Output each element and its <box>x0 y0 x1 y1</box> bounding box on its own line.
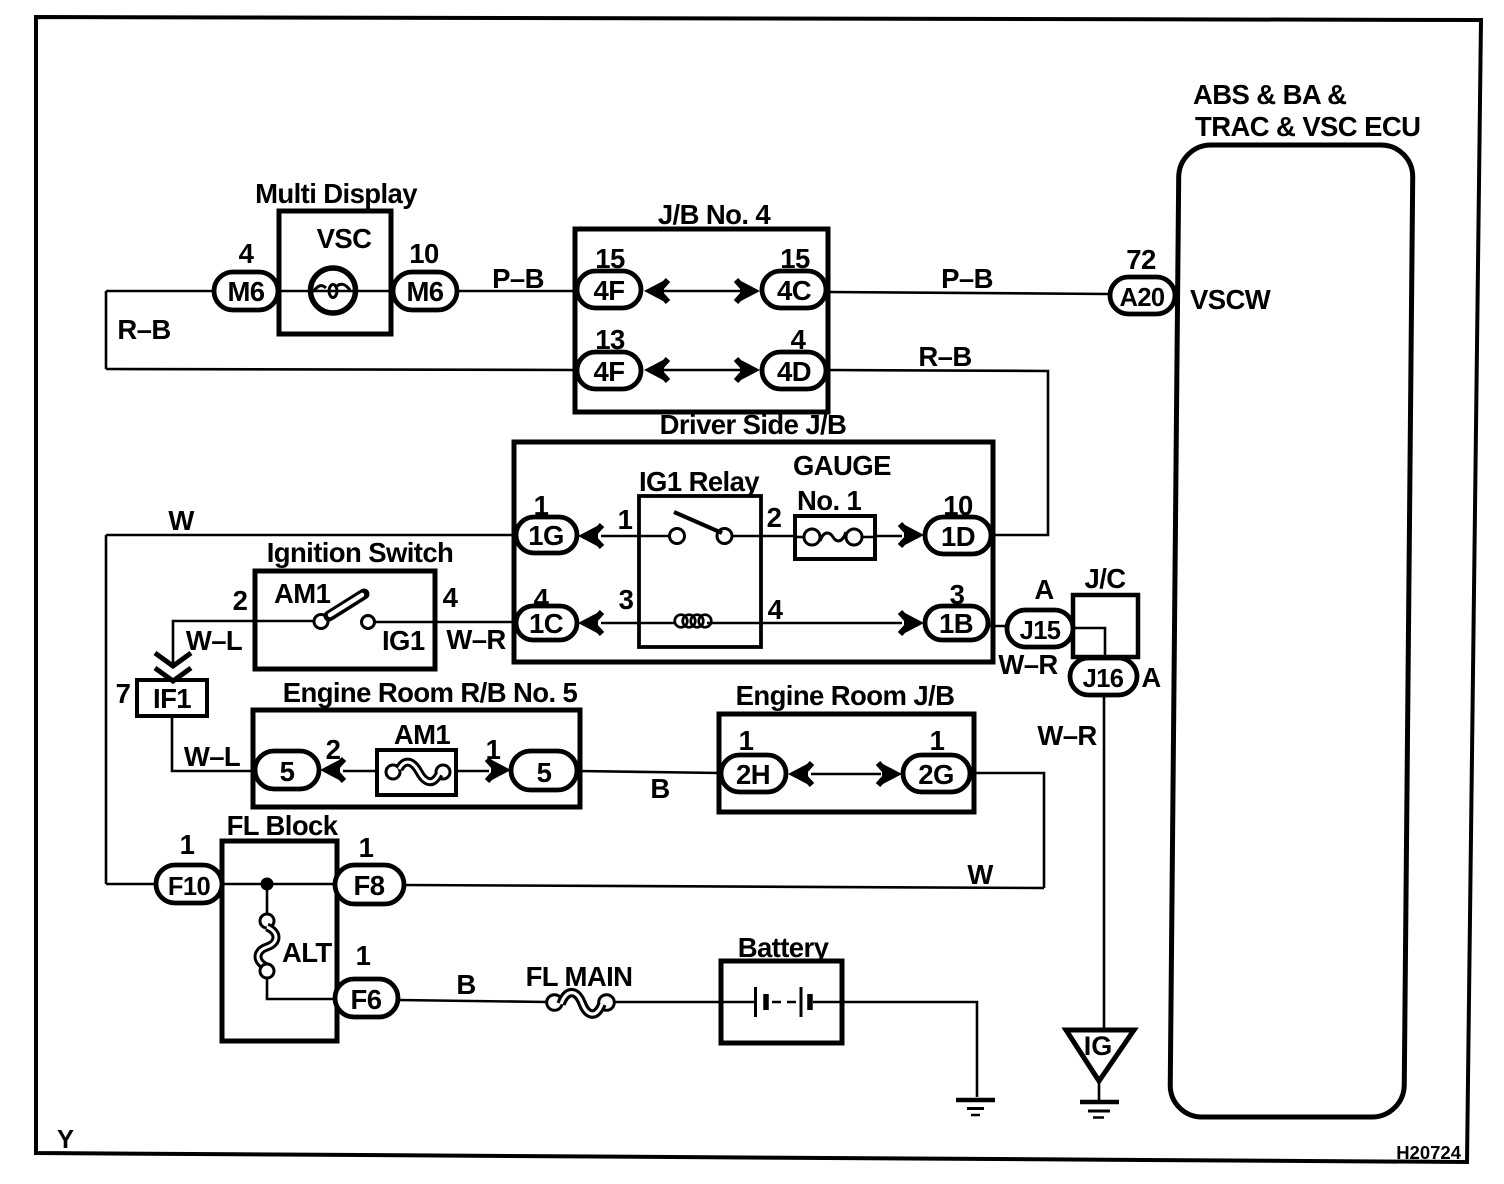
svg-text:1: 1 <box>534 490 549 521</box>
wire W8: 4D to 1D (R-B) <box>826 370 1048 535</box>
svg-text:J16: J16 <box>1083 665 1124 693</box>
wire W2: left trunk vertical (R-B) <box>105 291 108 369</box>
arrow into 1B <box>904 613 924 634</box>
svg-text:Driver Side J/B: Driver Side J/B <box>660 409 847 440</box>
wire inside J/B No.4 row2 <box>660 369 740 372</box>
wire W16: R/B No.5 to Engine Room J/B (B) <box>577 771 721 773</box>
svg-text:J/C: J/C <box>1085 563 1127 594</box>
svg-text:ABS & BA &: ABS & BA & <box>1193 79 1346 110</box>
svg-text:FL Block: FL Block <box>227 810 339 841</box>
svg-text:Ignition Switch: Ignition Switch <box>267 537 454 568</box>
connector 4D pin4 <box>762 352 826 389</box>
connector F10 pin1 <box>156 865 222 903</box>
arrow into left 5 <box>320 760 340 781</box>
svg-text:1: 1 <box>359 832 374 863</box>
junction connector J/C <box>1073 595 1138 659</box>
wire W20: left trunk to F10 <box>106 883 156 886</box>
connector 1D pin10 <box>925 517 991 554</box>
svg-text:Multi Display: Multi Display <box>255 178 418 209</box>
svg-text:4: 4 <box>443 582 459 613</box>
svg-text:W: W <box>967 859 993 890</box>
svg-text:Battery: Battery <box>738 932 830 963</box>
connector 4C pin15 <box>762 271 826 308</box>
svg-text:F8: F8 <box>354 870 385 901</box>
wire GAUGE to 1D arrow <box>875 535 902 538</box>
svg-text:J15: J15 <box>1020 617 1061 645</box>
wire W3: R-B wire to 4F(13) <box>106 369 577 370</box>
connector 4F pin15 <box>577 271 641 308</box>
svg-text:W–L: W–L <box>184 741 240 772</box>
svg-text:5: 5 <box>537 757 552 788</box>
fuse AM1 <box>377 750 456 795</box>
connector M6 (left) <box>214 272 278 310</box>
svg-text:1B: 1B <box>939 608 973 639</box>
wire W19: long W wire from F8 <box>403 885 1044 888</box>
svg-text:FL MAIN: FL MAIN <box>526 961 633 992</box>
svg-text:1G: 1G <box>528 520 564 551</box>
svg-text:M6: M6 <box>227 276 264 307</box>
wire inside J/B No.4 row1 <box>660 290 740 293</box>
arrow into 4F row1 <box>644 281 664 302</box>
lamp symbol inside Multi Display <box>311 268 356 313</box>
svg-text:7: 7 <box>116 678 131 709</box>
svg-text:4F: 4F <box>594 275 625 306</box>
Multi Display component <box>279 211 391 334</box>
connector 5 (left) pin2 <box>255 751 319 789</box>
wire arrow to AM1 fuse <box>343 770 377 773</box>
svg-text:5: 5 <box>280 756 295 787</box>
connector J16 pin A <box>1070 658 1137 695</box>
fuse GAUGE No.1 <box>795 516 875 559</box>
svg-text:VSCW: VSCW <box>1190 284 1271 315</box>
svg-text:2H: 2H <box>736 759 770 790</box>
wire F10 to F8 through FL Block <box>222 883 335 886</box>
svg-text:2: 2 <box>767 502 782 533</box>
arrow into 1C <box>578 613 598 634</box>
junction block Driver Side J/B <box>514 442 993 662</box>
junction block Engine Room J/B <box>719 714 974 812</box>
relay coil <box>639 615 761 628</box>
arrow into right 5 <box>491 760 511 781</box>
svg-text:4: 4 <box>534 583 550 614</box>
svg-text:P–B: P–B <box>492 263 544 294</box>
wire W5: M6 to J/B No.4 (P-B) <box>457 290 577 293</box>
wire W18: 2G right and down to W wire <box>970 773 1044 888</box>
wire inside Engine Room J/B <box>811 773 881 776</box>
svg-text:J/B No. 4: J/B No. 4 <box>658 199 772 230</box>
wire W9a: W wire from left trunk to 1G <box>106 534 516 537</box>
svg-text:IG: IG <box>1084 1031 1113 1061</box>
svg-text:No. 1: No. 1 <box>797 485 862 516</box>
svg-text:GAUGE: GAUGE <box>793 450 891 481</box>
svg-text:B: B <box>650 773 669 804</box>
svg-text:TRAC & VSC ECU: TRAC & VSC ECU <box>1195 111 1420 142</box>
svg-text:IF1: IF1 <box>153 683 191 714</box>
arrow into 2H <box>788 764 808 785</box>
svg-text:2: 2 <box>233 585 248 616</box>
svg-text:AM1: AM1 <box>274 578 331 609</box>
svg-text:A20: A20 <box>1120 284 1165 312</box>
junction block J/B No. 4 <box>575 229 828 412</box>
wire 1C arrow to relay pin3 <box>601 622 639 625</box>
svg-text:F6: F6 <box>351 984 382 1015</box>
wire W14: IF1 down to R/B No.5 (W-L) <box>172 716 255 771</box>
arrow into 2G <box>882 764 902 785</box>
svg-text:10: 10 <box>943 490 973 521</box>
svg-text:1: 1 <box>739 725 754 756</box>
svg-text:H20724: H20724 <box>1396 1142 1462 1163</box>
ground point IG triangle <box>1066 1030 1134 1100</box>
svg-text:R–B: R–B <box>117 314 170 345</box>
svg-text:13: 13 <box>595 324 625 355</box>
svg-text:P–B: P–B <box>941 263 993 294</box>
connector 2G pin1 <box>903 755 970 792</box>
wire battery to ground <box>842 1002 977 1097</box>
connector 1C pin4 <box>516 606 577 640</box>
svg-text:4F: 4F <box>594 356 625 387</box>
wire W12: ignition pin2 left and down (W-L) <box>173 621 255 664</box>
svg-text:IG1 Relay: IG1 Relay <box>639 466 760 497</box>
wire relay pin2 to GAUGE fuse <box>761 535 795 538</box>
svg-text:W–R: W–R <box>998 649 1058 680</box>
wire W13: ignition pin4 to 1C (W-R) <box>435 621 516 624</box>
svg-text:4: 4 <box>768 594 784 625</box>
wire 1G arrow to relay pin1 <box>601 535 639 538</box>
svg-text:Engine Room R/B No. 5: Engine Room R/B No. 5 <box>283 677 578 708</box>
arrow into 1G <box>578 526 598 547</box>
svg-text:A: A <box>1034 574 1054 605</box>
connector J15 pin A <box>1007 610 1073 647</box>
connector A20 pin72 <box>1110 277 1175 314</box>
wire FL MAIN to Battery <box>614 1001 721 1004</box>
wire AM1 fuse to arrow <box>456 770 489 773</box>
svg-text:ALT: ALT <box>282 937 332 968</box>
svg-text:A: A <box>1141 662 1161 693</box>
junction dot in FL Block <box>261 878 274 891</box>
svg-text:B: B <box>456 969 475 1000</box>
relay IG1 <box>639 496 761 647</box>
battery component <box>721 961 842 1043</box>
chevron arrows into IF1 <box>155 653 191 681</box>
svg-text:1: 1 <box>930 725 945 756</box>
wire W27: J16 down to IG ground (W-R) <box>1103 695 1106 1030</box>
svg-text:IG1: IG1 <box>382 625 425 656</box>
svg-text:W–R: W–R <box>446 624 506 655</box>
svg-text:15: 15 <box>595 243 625 274</box>
fusible link FL MAIN <box>547 993 615 1014</box>
svg-text:1: 1 <box>618 504 633 535</box>
svg-text:15: 15 <box>780 243 810 274</box>
connector F8 pin1 <box>335 865 404 904</box>
svg-text:3: 3 <box>950 579 965 610</box>
svg-text:W: W <box>168 505 194 536</box>
arrow into 4F row2 <box>644 360 664 381</box>
svg-text:Y: Y <box>57 1126 74 1154</box>
ground (IG) <box>1080 1102 1119 1118</box>
Ignition Switch component <box>255 571 435 669</box>
wire W1: M6 pin4 to left trunk <box>106 290 214 293</box>
connector 2H pin1 <box>721 755 786 792</box>
svg-text:F10: F10 <box>168 873 211 901</box>
connector 5 (right) pin1 <box>511 751 577 790</box>
arrow into 4C row1 <box>740 281 760 302</box>
connector 4F pin13 <box>577 352 641 389</box>
svg-text:VSC: VSC <box>317 223 372 254</box>
svg-text:4D: 4D <box>777 356 811 387</box>
svg-text:10: 10 <box>409 238 439 269</box>
connector F6 pin1 <box>335 979 398 1017</box>
svg-text:M6: M6 <box>406 276 443 307</box>
arrow into 4D row2 <box>740 360 760 381</box>
fuse block FL Block <box>222 841 337 1041</box>
svg-text:4: 4 <box>791 324 807 355</box>
ground (battery) <box>956 1100 995 1115</box>
svg-text:AM1: AM1 <box>394 719 451 750</box>
svg-text:W–L: W–L <box>186 625 242 656</box>
fusible link ALT <box>258 884 335 999</box>
relay block Engine Room R/B No. 5 <box>253 710 580 807</box>
connector 1B pin3 <box>925 606 988 640</box>
svg-text:1D: 1D <box>941 521 975 552</box>
svg-text:1: 1 <box>180 829 195 860</box>
arrow into 1D <box>904 525 924 546</box>
wire W25: 1B to J15 <box>988 625 1007 628</box>
wire relay pin4 to 1B arrow <box>761 622 902 625</box>
svg-text:2G: 2G <box>918 759 954 790</box>
ECU ABS & BA & TRAC & VSC ECU <box>1170 145 1413 1117</box>
svg-text:3: 3 <box>619 584 634 615</box>
svg-text:4: 4 <box>239 238 255 269</box>
fuse IF1 <box>137 680 207 716</box>
wire W9b: left vertical trunk x=106 from W wire down to F10 <box>105 535 108 884</box>
wire W7: 4C to A20 (P-B) <box>826 292 1110 294</box>
connector M6 (right) <box>393 272 457 310</box>
wire W22: F6 to FL MAIN (B) <box>398 1000 547 1002</box>
connector 1G pin1 <box>516 517 577 553</box>
svg-text:R–B: R–B <box>918 341 971 372</box>
svg-text:72: 72 <box>1126 244 1156 275</box>
svg-text:1: 1 <box>356 940 371 971</box>
svg-text:4C: 4C <box>777 275 812 306</box>
svg-text:Engine Room J/B: Engine Room J/B <box>736 680 955 711</box>
svg-text:W–R: W–R <box>1037 720 1097 751</box>
